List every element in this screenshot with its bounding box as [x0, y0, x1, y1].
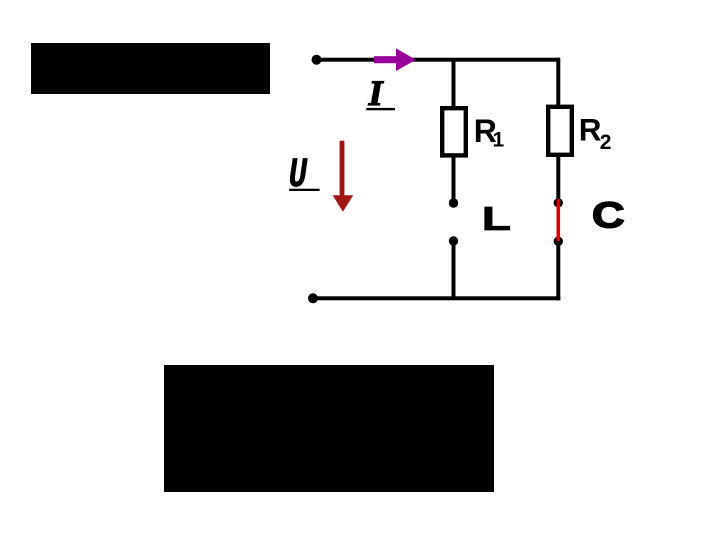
wire: C bottom terminal to bottom wire	[556, 241, 560, 300]
label L	[482, 200, 511, 237]
svg-text:I: I	[368, 73, 385, 113]
voltage arrow U (dark red)	[333, 141, 354, 212]
wire: branch 2 from top wire to R2	[556, 58, 560, 107]
wire: top horizontal	[316, 58, 560, 62]
resistor R1	[442, 108, 466, 155]
wire: branch 1 from top wire to R1	[452, 60, 456, 107]
wire: bottom horizontal	[313, 296, 560, 300]
label R2	[579, 112, 612, 155]
wire: L bottom terminal to bottom wire	[452, 241, 456, 300]
label U	[289, 152, 308, 200]
label R1	[474, 113, 505, 152]
title block (redacted)	[31, 43, 270, 94]
wire: R2 to C top terminal	[556, 155, 560, 203]
node: C bottom terminal	[554, 237, 563, 246]
node: C top terminal	[554, 198, 563, 207]
svg-text:C: C	[592, 195, 624, 236]
svg-text:1: 1	[493, 129, 505, 152]
svg-text:2: 2	[600, 131, 612, 154]
svg-text:L: L	[482, 200, 511, 237]
svg-text:R: R	[579, 112, 602, 148]
current arrow I (purple)	[374, 48, 416, 71]
formula block (redacted)	[164, 365, 494, 492]
svg-text:U: U	[289, 152, 308, 200]
underline of U	[289, 189, 319, 191]
wire: R1 to L top terminal	[452, 155, 456, 203]
node: L top terminal	[449, 198, 458, 207]
underline of I	[366, 108, 395, 110]
capacitor C (red element)	[557, 199, 561, 245]
node: input terminal bottom-left	[308, 293, 318, 303]
node: L bottom terminal	[449, 236, 458, 245]
label C	[592, 195, 624, 236]
resistor R2	[548, 107, 572, 155]
node: input terminal top-left	[312, 55, 322, 65]
